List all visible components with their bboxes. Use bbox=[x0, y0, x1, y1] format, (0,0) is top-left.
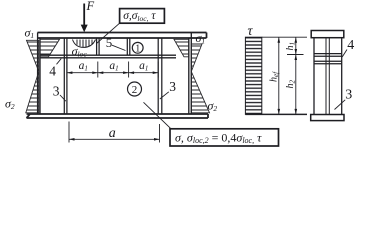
tau diagram bar bbox=[245, 37, 261, 114]
tau diagram top reference line bbox=[262, 36, 307, 38]
sigma1 stress trapezoid right (in strip) bbox=[174, 39, 189, 57]
column splice band 2 bbox=[314, 61, 342, 64]
column outer edges bbox=[314, 38, 342, 115]
a1 dimension extension lines bbox=[67, 62, 158, 78]
svg-text:1: 1 bbox=[135, 44, 140, 55]
web right edge bbox=[189, 33, 192, 115]
tau diagram mid tick bbox=[287, 54, 304, 56]
tau diagram baseline bbox=[245, 113, 307, 115]
leader for 5 bbox=[112, 45, 126, 50]
left bending stress diagram top triangle bbox=[27, 40, 39, 71]
top flange bbox=[38, 33, 207, 39]
column splice band 1 bbox=[314, 54, 342, 57]
transverse stiffener right pair bbox=[158, 38, 162, 114]
a1 dimension line bbox=[67, 72, 158, 74]
svg-text:a: a bbox=[109, 126, 116, 141]
bottom flange bbox=[27, 114, 209, 118]
a dimension line bbox=[69, 138, 160, 140]
circled 1 (upper panel) bbox=[132, 42, 143, 53]
svg-text:3: 3 bbox=[169, 79, 176, 94]
callout box top: sigma, sigma_loc, tau bbox=[120, 9, 165, 24]
column base plate bbox=[311, 115, 344, 121]
web left edge bbox=[38, 33, 40, 115]
leader for 3 left bbox=[60, 95, 66, 101]
svg-text:3: 3 bbox=[53, 84, 60, 99]
a dimension arrowheads bbox=[69, 138, 160, 141]
left bending stress diagram bottom triangle bbox=[26, 72, 39, 113]
leader for 4 column bbox=[342, 50, 347, 58]
leader from bottom box bbox=[144, 102, 172, 129]
callout box bottom: sigma, sigma_loc,2 = 0,4 sigma_loc, tau bbox=[170, 129, 279, 146]
leader for 3 right bbox=[160, 92, 169, 99]
local stress bell under F bbox=[73, 40, 96, 48]
leader for 4 bbox=[57, 59, 62, 65]
transverse stiffener left pair bbox=[64, 38, 67, 114]
right bending stress diagram top triangle bbox=[191, 44, 202, 72]
column inner lines bbox=[326, 38, 329, 115]
svg-text:3: 3 bbox=[345, 87, 352, 102]
longitudinal stiffener bbox=[40, 55, 176, 58]
svg-text:2: 2 bbox=[132, 84, 138, 96]
force F arrow bbox=[83, 4, 85, 27]
svg-text:5: 5 bbox=[106, 35, 113, 50]
svg-text:F: F bbox=[86, 0, 95, 13]
a dimension extension lines bbox=[69, 122, 160, 143]
column sketch cap plate bbox=[311, 31, 344, 38]
h1/h2 dimension line bbox=[295, 37, 297, 114]
svg-text:4: 4 bbox=[347, 38, 354, 53]
a1 dimension arrowheads bbox=[67, 71, 158, 74]
leader for 3 column bbox=[335, 100, 346, 110]
leader from top box bbox=[97, 23, 120, 43]
sigma1 stress trapezoid left (in strip) bbox=[40, 39, 60, 57]
circled 2 (lower panel) bbox=[128, 82, 142, 96]
svg-text:4: 4 bbox=[49, 63, 56, 78]
right bending stress diagram bottom triangle bbox=[191, 72, 209, 113]
short stiffener 5b bbox=[127, 38, 130, 55]
short stiffener 5a bbox=[97, 38, 100, 55]
h_ef dimension line bbox=[278, 37, 280, 114]
